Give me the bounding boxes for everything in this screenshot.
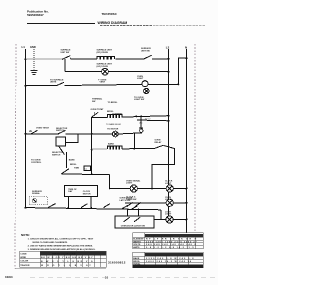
node junction L1 row E bbox=[25, 133, 27, 135]
svg-text:GND: GND bbox=[30, 45, 36, 49]
bake link wire to L2 bbox=[137, 119, 169, 122]
svg-text:WATTS: WATTS bbox=[133, 240, 141, 243]
oven door latch box bbox=[115, 216, 154, 228]
TOD clock box bbox=[64, 186, 97, 197]
header rule left thick bbox=[27, 23, 95, 24]
svg-text:TIME: TIME bbox=[74, 167, 80, 169]
svg-text:BAKE: BAKE bbox=[133, 257, 140, 260]
svg-text:2. USE 90° RATED WIRE WHEREVE: 2. USE 90° RATED WIRE WHEREVER REPLACING… bbox=[28, 245, 94, 248]
node junction broil relay taps bbox=[135, 116, 137, 118]
switch clean contact bbox=[61, 169, 69, 175]
node junction relay drop bbox=[151, 188, 153, 190]
svg-text:L2: L2 bbox=[166, 45, 170, 49]
svg-text:BAKE: BAKE bbox=[69, 158, 76, 161]
wire selector stub bbox=[66, 152, 68, 168]
svg-text:316000812: 316000812 bbox=[108, 260, 126, 264]
switch clock contacts bbox=[127, 202, 141, 206]
frame left dashed border bbox=[15, 44, 16, 269]
wire drop to signal row bbox=[109, 175, 111, 189]
switch bottom row 3 bbox=[104, 204, 110, 208]
svg-text:WIRING DIAGRAM: WIRING DIAGRAM bbox=[98, 21, 128, 25]
wire N rail bbox=[186, 49, 188, 233]
node junction L2 row A bbox=[168, 58, 170, 60]
svg-text:OVEN TSTAT: OVEN TSTAT bbox=[36, 127, 50, 130]
surface signal dashed box bbox=[29, 197, 48, 205]
wire drop row A to row B bbox=[64, 59, 66, 71]
lamp oven light bulb bbox=[137, 76, 148, 87]
svg-text:(RF) 2350W: (RF) 2350W bbox=[97, 52, 108, 54]
lamp oven light lens below bbox=[144, 88, 149, 93]
wire broil row left bbox=[92, 116, 108, 118]
node junction N top bbox=[186, 57, 188, 59]
wire row C right bbox=[148, 83, 178, 85]
surface unit LR element circle bbox=[97, 63, 113, 76]
wire TOD stubs bbox=[67, 197, 69, 208]
svg-text:240 240 240 240 240 240 2: 240 240 240 240 240 240 2 bbox=[146, 243, 197, 246]
svg-text:L1: L1 bbox=[22, 45, 26, 49]
svg-text:CONTROL: CONTROL bbox=[31, 162, 42, 164]
svg-text:VENT: VENT bbox=[100, 82, 106, 84]
wire row A to L2 bbox=[152, 58, 169, 60]
switch bottom row 1 bbox=[48, 204, 56, 208]
relay coil circle bbox=[140, 129, 143, 132]
svg-text:TEF350SC: TEF350SC bbox=[102, 12, 118, 16]
thermostat oven tstat symbol bbox=[30, 127, 50, 135]
wire box to light bbox=[154, 219, 166, 221]
wire row E main bbox=[66, 133, 113, 135]
thermal switch label bbox=[92, 98, 118, 104]
svg-text:BK W R OR Y BU GN BR V GY: BK W R OR Y BU GN BR V GY bbox=[41, 257, 93, 259]
wire coil to bake drop bbox=[134, 132, 141, 148]
wire clock feed row bbox=[62, 173, 110, 176]
footer crease dashes bbox=[30, 276, 215, 278]
bottom right table bbox=[133, 252, 204, 267]
svg-text:RELAY: RELAY bbox=[155, 141, 162, 144]
switch bottom row 2 bbox=[81, 204, 87, 208]
svg-text:TOTAL: TOTAL bbox=[133, 262, 141, 265]
wire selector rail bbox=[91, 117, 93, 175]
svg-text:OVEN DOOR LATCH SW: OVEN DOOR LATCH SW bbox=[121, 224, 145, 227]
node junction L2 bake link bbox=[168, 120, 170, 122]
svg-text:LIGHT: LIGHT bbox=[126, 183, 133, 185]
wire riser to N bbox=[178, 58, 186, 84]
ground chassis symbol bbox=[31, 70, 38, 75]
wire row C mid bbox=[64, 84, 141, 85]
node junction N lock row bbox=[186, 219, 188, 221]
frame right dashed border bbox=[194, 44, 196, 233]
svg-text:OVEN TSTAT: OVEN TSTAT bbox=[91, 108, 105, 111]
selector switch box bbox=[56, 137, 66, 146]
svg-text:LIGHT SW: LIGHT SW bbox=[134, 99, 144, 101]
selector blade bbox=[59, 146, 65, 155]
svg-text:1. CIRCUIT SHOWN WITH ALL CON: 1. CIRCUIT SHOWN WITH ALL CONTROLS OFF T… bbox=[28, 237, 94, 240]
svg-text:ELEMENT: ELEMENT bbox=[133, 239, 144, 241]
wire L1 rail bbox=[25, 49, 27, 208]
clock box small bbox=[84, 166, 91, 171]
svg-text:WIRE: WIRE bbox=[20, 257, 26, 259]
node junction N signal row bbox=[186, 188, 188, 190]
svg-text:MOTOR: MOTOR bbox=[83, 193, 91, 195]
svg-text:CODE: CODE bbox=[20, 254, 27, 256]
wire GND lead bbox=[33, 49, 35, 70]
svg-text:TO BAKE ELEM: TO BAKE ELEM bbox=[106, 123, 121, 126]
svg-text:B W R O Y L G BR V G: B W R O Y L G BR V G bbox=[41, 261, 94, 263]
svg-text:SW: SW bbox=[92, 101, 95, 103]
wiring color code table bbox=[20, 251, 107, 267]
switch to surface units bbox=[50, 78, 64, 86]
node junction L2 row B bbox=[168, 71, 170, 73]
node junction L1 bottom row bbox=[25, 207, 27, 209]
svg-text:SWITCH: SWITCH bbox=[52, 155, 61, 157]
svg-text:SIGNAL: SIGNAL bbox=[32, 192, 41, 195]
wire row E left bbox=[26, 133, 59, 135]
oven door latch labels bbox=[120, 198, 133, 202]
svg-text:RF LF RR LR BK BR N: RF LF RR LR BK BR N bbox=[146, 239, 198, 241]
svg-text:COLOR: COLOR bbox=[20, 261, 28, 263]
header rule right thin bbox=[100, 25, 205, 27]
svg-text:TO BROIL: TO BROIL bbox=[108, 102, 119, 104]
resistor broil element bbox=[107, 111, 123, 117]
switch latch contacts on wire bbox=[122, 206, 140, 211]
node junction rail row E bbox=[91, 133, 93, 135]
svg-text:MODE CLOSED AND CALIBRATE.: MODE CLOSED AND CALIBRATE. bbox=[33, 241, 69, 244]
oven relay label bbox=[155, 140, 162, 144]
wire row E elbow down bbox=[66, 134, 78, 143]
wire signal row bbox=[110, 188, 187, 190]
lamp clock light bbox=[165, 181, 173, 192]
svg-text:W R O Y L G B V GY: W R O Y L G B V GY bbox=[41, 265, 92, 267]
svg-text:5995268497: 5995268497 bbox=[27, 13, 44, 17]
wire row A right bbox=[115, 58, 144, 60]
wire row C left bbox=[26, 85, 57, 87]
wire relay out elbow bbox=[152, 146, 175, 189]
svg-text:3400 240 14.2 W 240 14: 3400 240 14.2 W 240 14 bbox=[146, 260, 192, 263]
svg-text:2350 1250 1250 2350 3400 27: 2350 1250 1250 2350 3400 27 bbox=[146, 240, 197, 243]
node junction signal row drop bbox=[109, 188, 111, 190]
to oven light sw label bbox=[134, 97, 144, 101]
clock switch labels bbox=[126, 197, 136, 201]
resistor surface unit RF element bbox=[97, 49, 115, 60]
svg-text:TRACER: TRACER bbox=[20, 264, 30, 267]
switch broil thermostat bbox=[91, 108, 105, 118]
lamp lock light bbox=[165, 211, 173, 223]
node junction L1 row A bbox=[25, 58, 27, 60]
wire bake row bbox=[92, 148, 108, 150]
svg-text:9.8 5.2 5.2 9.8 14.2 11.5: 9.8 5.2 5.2 9.8 14.2 11.5 bbox=[146, 246, 195, 249]
node junction rail clock row bbox=[91, 173, 93, 175]
node junction L1 row C bbox=[25, 85, 27, 87]
relay coil tick bbox=[139, 127, 143, 129]
lamp oven signal light bbox=[126, 179, 141, 192]
svg-text:VOLTS: VOLTS bbox=[133, 244, 141, 246]
svg-text:LIGHT: LIGHT bbox=[137, 78, 144, 80]
wire bottom elbow down bbox=[161, 210, 166, 220]
svg-text:UNITS: UNITS bbox=[50, 82, 57, 84]
node junction TOD stubs bbox=[68, 207, 70, 209]
svg-text:AMPS: AMPS bbox=[133, 246, 140, 249]
svg-text:3. DIMENSIONS ARE IN INCHES A: 3. DIMENSIONS ARE IN INCHES AND APPROX (… bbox=[28, 248, 96, 251]
svg-text:TO MOTOR: TO MOTOR bbox=[107, 128, 119, 130]
wire latch box stubs bbox=[127, 209, 129, 216]
wire row B bbox=[65, 71, 169, 73]
svg-text:TO L2: TO L2 bbox=[145, 118, 151, 120]
node junction bake verticals bbox=[133, 148, 135, 150]
svg-text:LIGHT: LIGHT bbox=[165, 214, 172, 216]
svg-text:LIGHT: LIGHT bbox=[165, 183, 172, 185]
svg-text:UNIT SW: UNIT SW bbox=[61, 52, 70, 54]
node junction L2 broil bbox=[168, 115, 170, 117]
wire vertical relay branch bbox=[140, 116, 142, 128]
wire lock light to N bbox=[173, 219, 186, 221]
wire L2 rail bbox=[168, 49, 170, 216]
node junction bake link bbox=[140, 119, 142, 121]
switch oven relay contact bbox=[154, 145, 164, 149]
svg-text:(LR) 1250W: (LR) 1250W bbox=[97, 66, 108, 68]
switch surface unit sw right front bbox=[61, 49, 72, 60]
wire row A mid bbox=[71, 58, 98, 60]
surface signal label bbox=[32, 190, 43, 195]
lamp oven cycle light bbox=[165, 197, 173, 207]
switch selector contact bbox=[56, 128, 68, 135]
resistor bake element bbox=[108, 142, 122, 148]
node junction selector rail bake bbox=[91, 149, 93, 151]
top right table bbox=[133, 233, 204, 249]
wire row E to coil bbox=[118, 132, 134, 135]
node junction N clock row bbox=[186, 202, 188, 204]
table bottom rule bbox=[15, 268, 106, 270]
wire dashed selector tap bbox=[91, 148, 93, 150]
selector labels bbox=[31, 152, 80, 169]
svg-text:NOTE:: NOTE: bbox=[21, 233, 30, 237]
wire bake row right bbox=[122, 148, 154, 150]
svg-text:BROIL: BROIL bbox=[70, 164, 77, 166]
header publication text bbox=[27, 10, 49, 18]
oven vent label bbox=[98, 78, 107, 83]
svg-text:UNIT SW: UNIT SW bbox=[141, 50, 150, 52]
wire clock row bbox=[125, 202, 187, 204]
wire bottom row bbox=[26, 208, 162, 210]
svg-text:LATCH SW: LATCH SW bbox=[120, 199, 131, 202]
wire broil row to L2 bbox=[122, 116, 169, 117]
switch surface unit sw right rear bbox=[141, 47, 152, 59]
wire row A left bbox=[26, 58, 63, 60]
svg-text:2350 240 9.8 W 240 9.8: 2350 240 9.8 W 240 9.8 bbox=[146, 257, 195, 260]
node junction riser row C bbox=[177, 83, 179, 85]
svg-text:10/94: 10/94 bbox=[5, 275, 13, 279]
svg-text:DAY: DAY bbox=[68, 190, 73, 193]
